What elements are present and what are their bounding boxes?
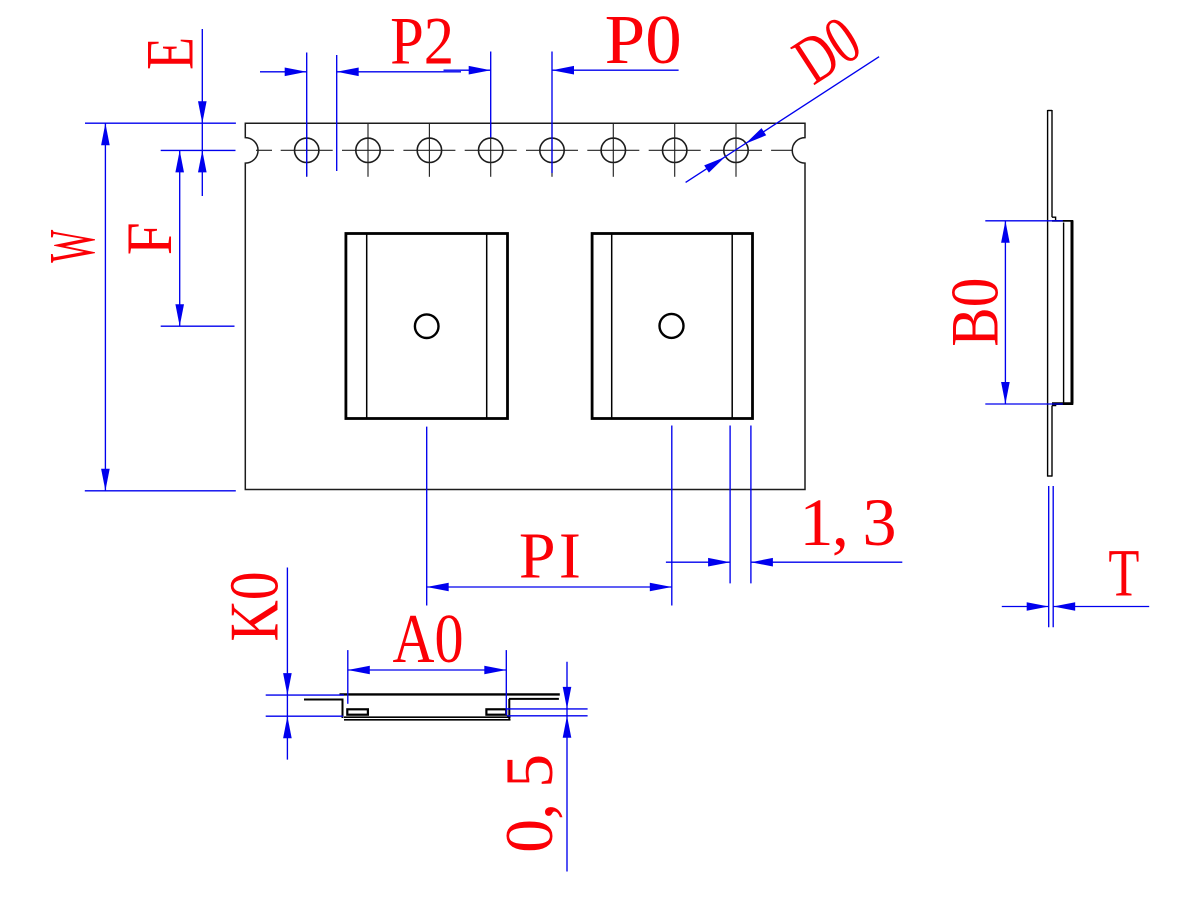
dimension 1,3 — [666, 426, 902, 584]
section pocket left rib — [347, 709, 368, 714]
svg-text:E: E — [131, 37, 207, 70]
svg-text:A0: A0 — [393, 601, 464, 678]
svg-text:T: T — [1108, 535, 1139, 611]
dimension E — [161, 29, 236, 196]
section view tape profile — [304, 694, 560, 719]
dimension 0,5 — [507, 662, 588, 872]
dimension P0 — [444, 52, 679, 174]
dimension P2 — [260, 53, 461, 177]
svg-text:B0: B0 — [937, 278, 1013, 347]
svg-text:P0: P0 — [605, 2, 682, 79]
sprocket hole 6 — [601, 124, 625, 177]
svg-text:1, 3: 1, 3 — [800, 484, 897, 560]
dimension A0 — [348, 650, 507, 715]
svg-text:0, 5: 0, 5 — [491, 754, 567, 853]
svg-text:D0: D0 — [780, 1, 873, 99]
carrier tape outline — [245, 123, 805, 489]
sprocket hole centerline — [256, 149, 793, 151]
sprocket hole 1 — [295, 124, 319, 177]
sprocket hole 3 — [417, 124, 441, 177]
side view pocket bulge — [1052, 221, 1073, 404]
section pocket right rib — [486, 709, 506, 714]
sprocket hole 2 — [356, 124, 380, 177]
component pocket 1 — [346, 234, 508, 419]
side view tape strip — [1048, 110, 1056, 477]
svg-text:K0: K0 — [216, 572, 293, 642]
dimension F — [161, 150, 235, 326]
sprocket hole 4 — [479, 124, 503, 177]
svg-text:P2: P2 — [390, 2, 454, 78]
sprocket hole 8 — [724, 124, 748, 177]
dimension W — [85, 123, 236, 491]
dimension D0 — [686, 57, 880, 183]
dimension T — [1002, 486, 1149, 627]
component pocket 2 — [592, 234, 752, 419]
sprocket hole 5 — [540, 124, 564, 177]
sprocket hole 7 — [663, 124, 687, 177]
svg-text:W: W — [36, 229, 109, 262]
dimension B0 — [985, 221, 1063, 404]
dimension PI — [427, 426, 672, 606]
svg-text:PI: PI — [519, 519, 581, 592]
dimension K0 — [266, 568, 344, 760]
svg-text:F: F — [114, 222, 186, 255]
